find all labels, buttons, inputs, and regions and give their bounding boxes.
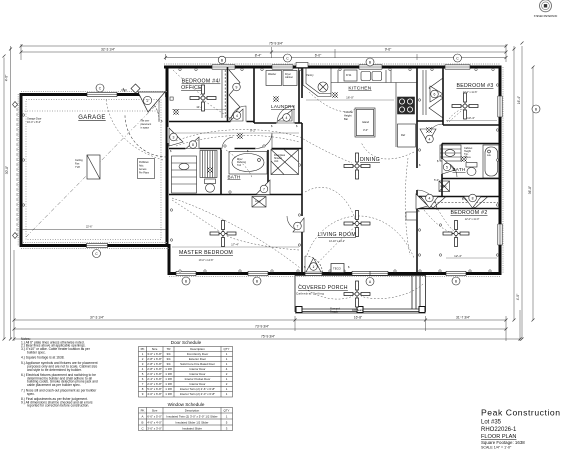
wall: bath2 bottom xyxy=(442,178,500,180)
svg-text:OFFICE: OFFICE xyxy=(181,85,202,91)
hatch: below garage bottom wall xyxy=(21,248,169,250)
light: laundry xyxy=(274,97,278,101)
svg-text:LIVING ROOM: LIVING ROOM xyxy=(318,232,356,238)
ceiling fan: bedroom2 xyxy=(443,221,469,247)
svg-text:Tile over: Tile over xyxy=(141,120,150,123)
svg-text:4: 4 xyxy=(286,116,288,120)
svg-text:Solid Core Fire Rated Door: Solid Core Fire Rated Door xyxy=(180,362,215,366)
dim diamond tick left bottom xyxy=(13,233,18,239)
wiring: porch arc right xyxy=(361,284,423,299)
svg-text:75'-9 3/4": 75'-9 3/4" xyxy=(269,42,284,46)
svg-text:1 3/8: 1 3/8 xyxy=(165,382,172,386)
svg-text:Description: Description xyxy=(190,347,205,351)
svg-text:Size: Size xyxy=(152,409,158,413)
wall: bath2 top xyxy=(442,143,500,145)
door: front entry swing xyxy=(158,96,160,122)
svg-text:COVERED PORCH: COVERED PORCH xyxy=(298,285,348,291)
svg-text:Insulated Twin (2) 3'-0" x 5'-: Insulated Twin (2) 3'-0" x 5'-0" 1/2 Sli… xyxy=(166,415,217,419)
master shower xyxy=(271,150,299,175)
svg-text:GARAGE: GARAGE xyxy=(78,115,105,121)
svg-text:cable placement as per builder: cable placement as per builder spec. xyxy=(27,383,81,387)
svg-text:3'-0" x 3'-0": 3'-0" x 3'-0" xyxy=(147,427,162,431)
wall: kitchen/living right xyxy=(416,67,418,168)
marker: C garage bottom xyxy=(93,250,101,258)
svg-text:Interior Door: Interior Door xyxy=(189,367,205,371)
svg-text:B: B xyxy=(142,421,144,425)
svg-text:PK: PK xyxy=(141,347,145,351)
window: master 1 (B) xyxy=(176,271,196,276)
svg-text:4: 4 xyxy=(429,137,431,141)
svg-text:QTY: QTY xyxy=(224,409,230,413)
door marker 4: hall door xyxy=(416,194,428,209)
door: master suite hall xyxy=(256,133,272,149)
svg-text:Size: Size xyxy=(152,347,158,351)
door marker 8: master bath xyxy=(186,137,199,149)
marker: C garage xyxy=(96,84,104,92)
door: bedroom3 xyxy=(427,124,443,140)
svg-text:DINING: DINING xyxy=(360,157,380,163)
svg-text:Lot #35: Lot #35 xyxy=(481,420,502,426)
wall: laundry right xyxy=(298,67,300,123)
svg-text:Counter: Counter xyxy=(344,110,353,114)
wall: laundry/hall bottom xyxy=(254,122,302,124)
window: bedroom2 bottom (B) xyxy=(446,271,466,276)
svg-text:16'-4": 16'-4" xyxy=(517,95,521,104)
living niche xyxy=(406,212,417,220)
svg-text:12'-2" x 11'-6": 12'-2" x 11'-6" xyxy=(463,91,478,94)
wiring: kitchen arc xyxy=(309,92,355,112)
svg-text:12'-2" x 11'-0": 12'-2" x 11'-0" xyxy=(465,218,480,221)
refrigerator xyxy=(398,124,416,147)
svg-text:BATH: BATH xyxy=(452,167,465,172)
svg-text:2'-4" x 6'-8": 2'-4" x 6'-8" xyxy=(147,377,162,381)
svg-text:Pantry: Pantry xyxy=(306,73,314,77)
dryer xyxy=(283,71,297,86)
light: entry xyxy=(174,110,178,114)
wall: bedroom2 closet front xyxy=(417,208,500,210)
svg-text:3/4: 3/4 xyxy=(166,357,170,361)
marker: B master2 xyxy=(253,277,261,285)
svg-text:QTY: QTY xyxy=(224,347,230,351)
door marker 5: bath2 xyxy=(442,158,455,174)
svg-text:7: 7 xyxy=(297,224,299,228)
window: bedroom3 top (C) xyxy=(445,64,470,69)
svg-text:Interior Door: Interior Door xyxy=(189,372,205,376)
door marker 7: master hall door xyxy=(256,180,270,195)
svg-text:5: 5 xyxy=(446,165,448,169)
door: porch xyxy=(304,256,306,274)
svg-text:cabinet: cabinet xyxy=(285,76,293,79)
svg-text:2'-8" x 6'-8": 2'-8" x 6'-8" xyxy=(147,357,162,361)
entry tile note xyxy=(141,120,152,130)
svg-text:4'-0" x 6'-8": 4'-0" x 6'-8" xyxy=(147,392,162,396)
ceiling fan: living room xyxy=(344,211,370,237)
svg-text:Island: Island xyxy=(362,120,369,124)
dishwasher xyxy=(344,70,357,81)
door: garage to hall xyxy=(125,115,167,157)
dim bottom line2 xyxy=(14,328,506,330)
svg-text:16'-8": 16'-8" xyxy=(354,316,363,320)
svg-text:Treads: Treads xyxy=(330,311,338,314)
dim right verticals xyxy=(513,46,515,320)
window: garage top (C) xyxy=(87,92,117,97)
svg-text:Unit: Unit xyxy=(274,160,279,163)
svg-text:4.) Square footage is at 1638: 4.) Square footage is at 1638. xyxy=(21,356,65,360)
door: master bath pocket xyxy=(222,137,233,149)
svg-text:3/4: 3/4 xyxy=(166,352,170,356)
door opening: front entry xyxy=(140,92,166,97)
svg-text:reported for correction before: reported for correction before construct… xyxy=(27,404,89,408)
porch posts xyxy=(296,307,425,313)
svg-text:Bar: Bar xyxy=(344,117,348,121)
svg-text:1 3/8: 1 3/8 xyxy=(165,372,172,376)
switch marks xyxy=(161,119,464,269)
svg-text:Exterior Door: Exterior Door xyxy=(189,357,206,361)
svg-text:Linen: Linen xyxy=(441,185,448,188)
svg-text:30'-8": 30'-8" xyxy=(5,165,9,174)
svg-text:STEVEN PETERSON: STEVEN PETERSON xyxy=(534,15,558,18)
wiring: porch arc left xyxy=(299,284,353,299)
svg-text:37'-3 1/4": 37'-3 1/4" xyxy=(90,316,105,320)
svg-text:4: 4 xyxy=(428,196,430,200)
master closet shelving xyxy=(200,151,217,178)
svg-text:PK: PK xyxy=(141,409,145,413)
bath2 vanity xyxy=(440,145,461,161)
marker: B bedroom4 xyxy=(218,56,226,64)
wall: bedroom3 bottom xyxy=(443,124,500,126)
wiring: master right arc xyxy=(227,236,299,250)
hatch: above garage top wall xyxy=(21,91,167,93)
dim top overall xyxy=(21,45,506,47)
svg-text:75'-9 3/4": 75'-9 3/4" xyxy=(261,335,276,339)
svg-text:4'-0": 4'-0" xyxy=(5,74,9,81)
ceiling fan: porch xyxy=(344,281,370,307)
wiring: right wall run xyxy=(405,158,410,255)
linen hall xyxy=(439,181,450,192)
svg-text:Access: Access xyxy=(139,168,147,171)
wall: bedroom2 top / closet xyxy=(417,196,500,198)
dim top extension ticks xyxy=(20,44,22,60)
svg-text:LAUNDRY: LAUNDRY xyxy=(271,104,295,109)
door: bedroom4 xyxy=(231,106,246,122)
svg-text:BEDROOM #2: BEDROOM #2 xyxy=(450,210,487,216)
svg-text:17'-4": 17'-4" xyxy=(231,243,239,247)
closet: bedroom3 zigzag doors xyxy=(422,70,424,115)
door marker 8: bedroom2 closet xyxy=(464,197,481,209)
door: bath2 xyxy=(442,162,457,177)
linen master xyxy=(252,197,266,208)
bath2 tub xyxy=(483,145,500,178)
svg-text:3: 3 xyxy=(173,135,175,139)
island xyxy=(355,108,375,137)
dim diamond tick left top xyxy=(13,102,18,108)
svg-text:4: 4 xyxy=(236,114,238,118)
svg-text:Interior Twin (2) 2'-6" x 6'-8: Interior Twin (2) 2'-6" x 6'-8" xyxy=(180,387,215,391)
door marker 4: laundry door xyxy=(278,110,292,121)
room micro dims xyxy=(199,91,480,262)
window: bedroom4 (B) xyxy=(212,64,235,69)
door marker 9: bedroom4 closet xyxy=(229,70,240,120)
closet: bedroom2 sliding doors xyxy=(420,197,446,209)
pantry lazy susan xyxy=(318,82,328,92)
closet: bedroom4 xyxy=(221,70,223,118)
svg-text:8'-4": 8'-4" xyxy=(255,53,262,57)
svg-text:6: 6 xyxy=(434,92,436,96)
svg-text:C: C xyxy=(141,427,143,431)
svg-text:4'-0": 4'-0" xyxy=(516,293,520,300)
entry diamond post xyxy=(131,84,140,93)
door opening: porch entry xyxy=(305,271,322,277)
pantry corner cabinet xyxy=(303,69,331,97)
svg-text:3'-0": 3'-0" xyxy=(363,128,368,132)
bath2 toilet xyxy=(466,163,477,168)
dim bottom ticks xyxy=(13,250,15,341)
porch outline xyxy=(295,276,426,312)
svg-text:13'-4": 13'-4" xyxy=(467,116,475,120)
svg-text:placement: placement xyxy=(141,123,152,126)
svg-text:5'-0": 5'-0" xyxy=(434,178,439,182)
wall: garage/house shared vertical xyxy=(166,66,169,246)
dim left verticals xyxy=(3,58,5,340)
door: master suite from living xyxy=(287,216,302,231)
wiring: living to fan xyxy=(305,187,355,219)
master vanity xyxy=(172,156,197,193)
attic access box xyxy=(138,159,155,179)
svg-text:2'-8" x 6'-8": 2'-8" x 6'-8" xyxy=(147,367,162,371)
svg-text:22'-6": 22'-6" xyxy=(86,226,92,229)
garage header dotted line xyxy=(22,110,160,112)
window: kitchen sink (B) xyxy=(359,64,382,69)
garage furnace square xyxy=(87,155,100,179)
svg-text:BEDROOM #3: BEDROOM #3 xyxy=(456,83,493,89)
door marker 3: garage entry xyxy=(169,128,183,146)
svg-text:36'-8": 36'-8" xyxy=(528,185,532,194)
door marker 4: hall to bedroom3 xyxy=(420,129,436,143)
master tub xyxy=(229,152,267,175)
svg-text:6'-0": 6'-0" xyxy=(315,53,322,57)
window: bedroom3 right (B) xyxy=(497,96,502,117)
svg-text:3'-0" x 6'-8": 3'-0" x 6'-8" xyxy=(147,352,162,356)
svg-text:Cathedral Ceiling: Cathedral Ceiling xyxy=(296,292,324,296)
wall: bath2 left xyxy=(441,144,443,197)
svg-text:16'-0": 16'-0" xyxy=(346,96,354,100)
wall: left lower (master) xyxy=(168,246,171,276)
svg-text:5'-0" x 6'-8": 5'-0" x 6'-8" xyxy=(147,387,162,391)
svg-text:and style to be determined by: and style to be determined by builder. xyxy=(27,368,82,372)
wall: main bottom xyxy=(169,272,500,275)
dim top third xyxy=(166,57,507,59)
washer xyxy=(266,71,282,86)
marker: B master1 xyxy=(182,277,190,285)
svg-text:Per Plans: Per Plans xyxy=(139,172,150,175)
wall: bedroom3 closet bottom xyxy=(417,120,443,122)
svg-text:Insulated Slider: Insulated Slider xyxy=(182,427,202,431)
door marker 4: bedroom2 closet left xyxy=(421,197,438,209)
svg-text:9'-2": 9'-2" xyxy=(250,129,256,133)
window: living room (A) xyxy=(352,271,388,276)
svg-text:1 3/8: 1 3/8 xyxy=(165,392,172,396)
ceiling fan: dining xyxy=(344,153,370,179)
svg-text:1 3/8: 1 3/8 xyxy=(165,377,172,381)
door marker 2: porch door xyxy=(306,258,321,272)
door: laundry xyxy=(277,122,294,124)
svg-text:3/4: 3/4 xyxy=(166,362,170,366)
svg-text:Square Footage: 1638: Square Footage: 1638 xyxy=(481,440,525,445)
wall: bedroom3 left xyxy=(442,67,444,125)
counter right run xyxy=(395,83,397,148)
range/cooktop xyxy=(398,97,415,114)
wiring: bedroom3 arc xyxy=(447,109,463,122)
wall: main top xyxy=(164,66,500,69)
wiring: master arc xyxy=(172,200,219,231)
wiring: garage arc xyxy=(106,99,163,160)
hatch: below main bottom wall xyxy=(169,276,500,278)
door marker 4: bedroom4 door xyxy=(230,109,243,121)
light: hall xyxy=(238,134,242,138)
svg-text:31'-7 3/4": 31'-7 3/4" xyxy=(456,316,471,320)
wall: hall/living left xyxy=(301,123,303,274)
svg-text:MASTER BEDROOM: MASTER BEDROOM xyxy=(179,250,233,256)
svg-text:TECO: TECO xyxy=(333,267,342,271)
svg-text:Washer: Washer xyxy=(268,73,276,76)
window: laundry (C) xyxy=(272,64,293,69)
wall: garage left xyxy=(20,93,23,247)
dim bottom line1 xyxy=(14,319,506,321)
svg-text:16'-0" x 8'-0": 16'-0" x 8'-0" xyxy=(27,121,41,124)
light: bath2 xyxy=(462,157,466,161)
svg-text:SCALE 1/4" = 1'-0": SCALE 1/4" = 1'-0" xyxy=(481,446,512,450)
svg-text:7'x8': 7'x8' xyxy=(75,166,81,169)
dim tick slashes xyxy=(3,42,535,341)
svg-text:6'-0" x 5'-0": 6'-0" x 5'-0" xyxy=(147,415,162,419)
svg-text:2'-8" x 6'-8": 2'-8" x 6'-8" xyxy=(147,362,162,366)
ceiling fan: bedroom4 xyxy=(190,85,216,111)
door marker 7b: master suite door xyxy=(293,218,304,232)
svg-text:in space: in space xyxy=(141,128,150,130)
master toilet xyxy=(205,179,216,184)
svg-text:Description: Description xyxy=(185,409,200,413)
marker: B kitchen xyxy=(366,58,374,66)
svg-text:13'-0" x 14'-8": 13'-0" x 14'-8" xyxy=(199,259,214,262)
wall: pantry left upper xyxy=(301,67,303,98)
svg-text:9: 9 xyxy=(236,85,238,89)
wiring: bedroom2 arc xyxy=(424,210,452,233)
marker: C laundry xyxy=(284,54,292,62)
window: bedroom2 right (B) xyxy=(497,224,502,245)
wall: bath block top (hall south) xyxy=(169,148,302,150)
svg-text:Door Schedule: Door Schedule xyxy=(171,340,202,345)
svg-text:7: 7 xyxy=(263,187,265,191)
garage interior dim line xyxy=(22,229,166,231)
svg-text:RHO22026-1: RHO22026-1 xyxy=(481,427,517,433)
svg-text:Linen: Linen xyxy=(255,200,262,203)
svg-text:1 3/8: 1 3/8 xyxy=(165,387,172,391)
wall: right exterior xyxy=(499,66,502,276)
svg-text:Interior Door: Interior Door xyxy=(189,382,205,386)
wall: bedroom4 bottom xyxy=(169,121,254,123)
svg-text:KITCHEN: KITCHEN xyxy=(348,86,371,92)
svg-text:32'-3 1/4": 32'-3 1/4" xyxy=(101,48,116,52)
svg-text:Ref: Ref xyxy=(401,133,405,137)
svg-text:Interior Pocket Door: Interior Pocket Door xyxy=(185,377,211,381)
ceiling fan: bedroom3 xyxy=(452,93,478,119)
wall: laundry left xyxy=(253,67,255,123)
hatch: above main top wall xyxy=(164,63,500,65)
marker: A living xyxy=(366,278,374,286)
wiring: kitchen right xyxy=(361,142,414,159)
svg-text:1 3/8: 1 3/8 xyxy=(165,367,172,371)
svg-text:4x6 Beam: 4x6 Beam xyxy=(352,309,363,312)
kitchen counter top run xyxy=(331,82,396,84)
light: hall2 xyxy=(427,128,431,132)
svg-text:BATH: BATH xyxy=(227,175,240,180)
svg-text:PullDown: PullDown xyxy=(139,162,149,164)
svg-text:Interior Twin (2) 2'-0" x 6'-8: Interior Twin (2) 2'-0" x 6'-8" xyxy=(180,392,215,396)
kitchen sink xyxy=(361,72,371,81)
marker: B bedroom3 right xyxy=(532,105,540,113)
wiring: entry to dining xyxy=(300,137,352,163)
wiring: bedroom4 arc xyxy=(204,100,230,118)
door marker 1: front entry xyxy=(138,92,165,112)
svg-text:Height: Height xyxy=(344,114,352,118)
garage diagonal brace 1 xyxy=(26,101,160,237)
svg-text:8: 8 xyxy=(192,143,194,147)
light: master bath xyxy=(208,168,212,172)
svg-text:spec.: spec. xyxy=(27,392,35,396)
garage door dashed panel xyxy=(16,103,18,237)
svg-text:14'-10" x 19'-2": 14'-10" x 19'-2" xyxy=(329,240,345,243)
svg-text:2'-6" x 6'-8": 2'-6" x 6'-8" xyxy=(147,372,162,376)
svg-text:Front Entry Door: Front Entry Door xyxy=(187,352,208,356)
svg-text:Insulated Slider 1/2 Slider: Insulated Slider 1/2 Slider xyxy=(176,421,209,425)
porch steps column xyxy=(411,276,413,310)
hatch: left of garage wall xyxy=(17,94,19,246)
wall: bedroom4 right xyxy=(227,67,229,122)
dim bottom line3 xyxy=(14,338,520,340)
wall: bath block divider 1 xyxy=(220,149,222,195)
svg-text:12'-4": 12'-4" xyxy=(454,254,462,258)
wall: master bedroom top xyxy=(169,194,302,196)
wall: garage bottom xyxy=(20,244,171,247)
svg-text:builder spec.: builder spec. xyxy=(27,351,46,355)
wall: bath block divider 2 xyxy=(267,149,269,195)
garage inner dotted outline xyxy=(26,100,161,240)
svg-text:Tub: Tub xyxy=(237,164,242,167)
door: hall from living xyxy=(417,190,437,210)
hatch: right of right wall xyxy=(502,67,504,273)
svg-text:2'-0" x 6'-8": 2'-0" x 6'-8" xyxy=(147,382,162,386)
marker: B bedroom2 bottom xyxy=(452,277,460,285)
extra wiring arcs xyxy=(172,70,464,268)
svg-text:73'-9 3/4": 73'-9 3/4" xyxy=(255,325,270,329)
wiring: hall run xyxy=(176,130,299,141)
svg-text:Peak Construction: Peak Construction xyxy=(481,408,561,418)
svg-text:8: 8 xyxy=(472,196,474,200)
window: garage bottom (C) xyxy=(87,243,108,248)
light: kitchen 1 xyxy=(333,93,337,97)
marker: C bedroom3 top xyxy=(454,54,462,62)
dim top second xyxy=(21,51,506,53)
svg-text:Window Schedule: Window Schedule xyxy=(168,402,205,407)
svg-text:TR: TR xyxy=(167,347,171,351)
wall: garage top xyxy=(20,93,141,96)
window: master 2 (B) xyxy=(248,271,268,276)
wiring: living large arc xyxy=(307,216,414,258)
ceiling fan: master bedroom xyxy=(210,221,236,247)
svg-text:4'-0" x 4'-0": 4'-0" x 4'-0" xyxy=(147,421,162,425)
logo circle xyxy=(540,0,552,12)
svg-text:D.W.: D.W. xyxy=(346,73,352,77)
